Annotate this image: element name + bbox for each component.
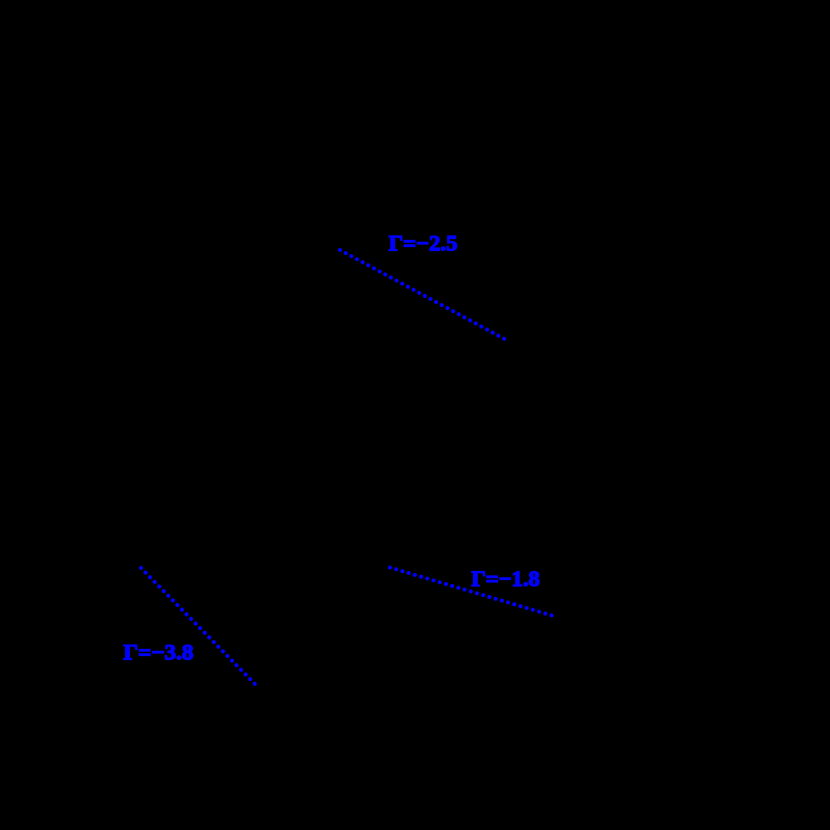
svg-text:Γ=−3.8: Γ=−3.8 (123, 640, 193, 665)
svg-text:Γ=−2.5: Γ=−2.5 (389, 231, 458, 256)
svg-text:Γ=−1.8: Γ=−1.8 (471, 566, 539, 591)
